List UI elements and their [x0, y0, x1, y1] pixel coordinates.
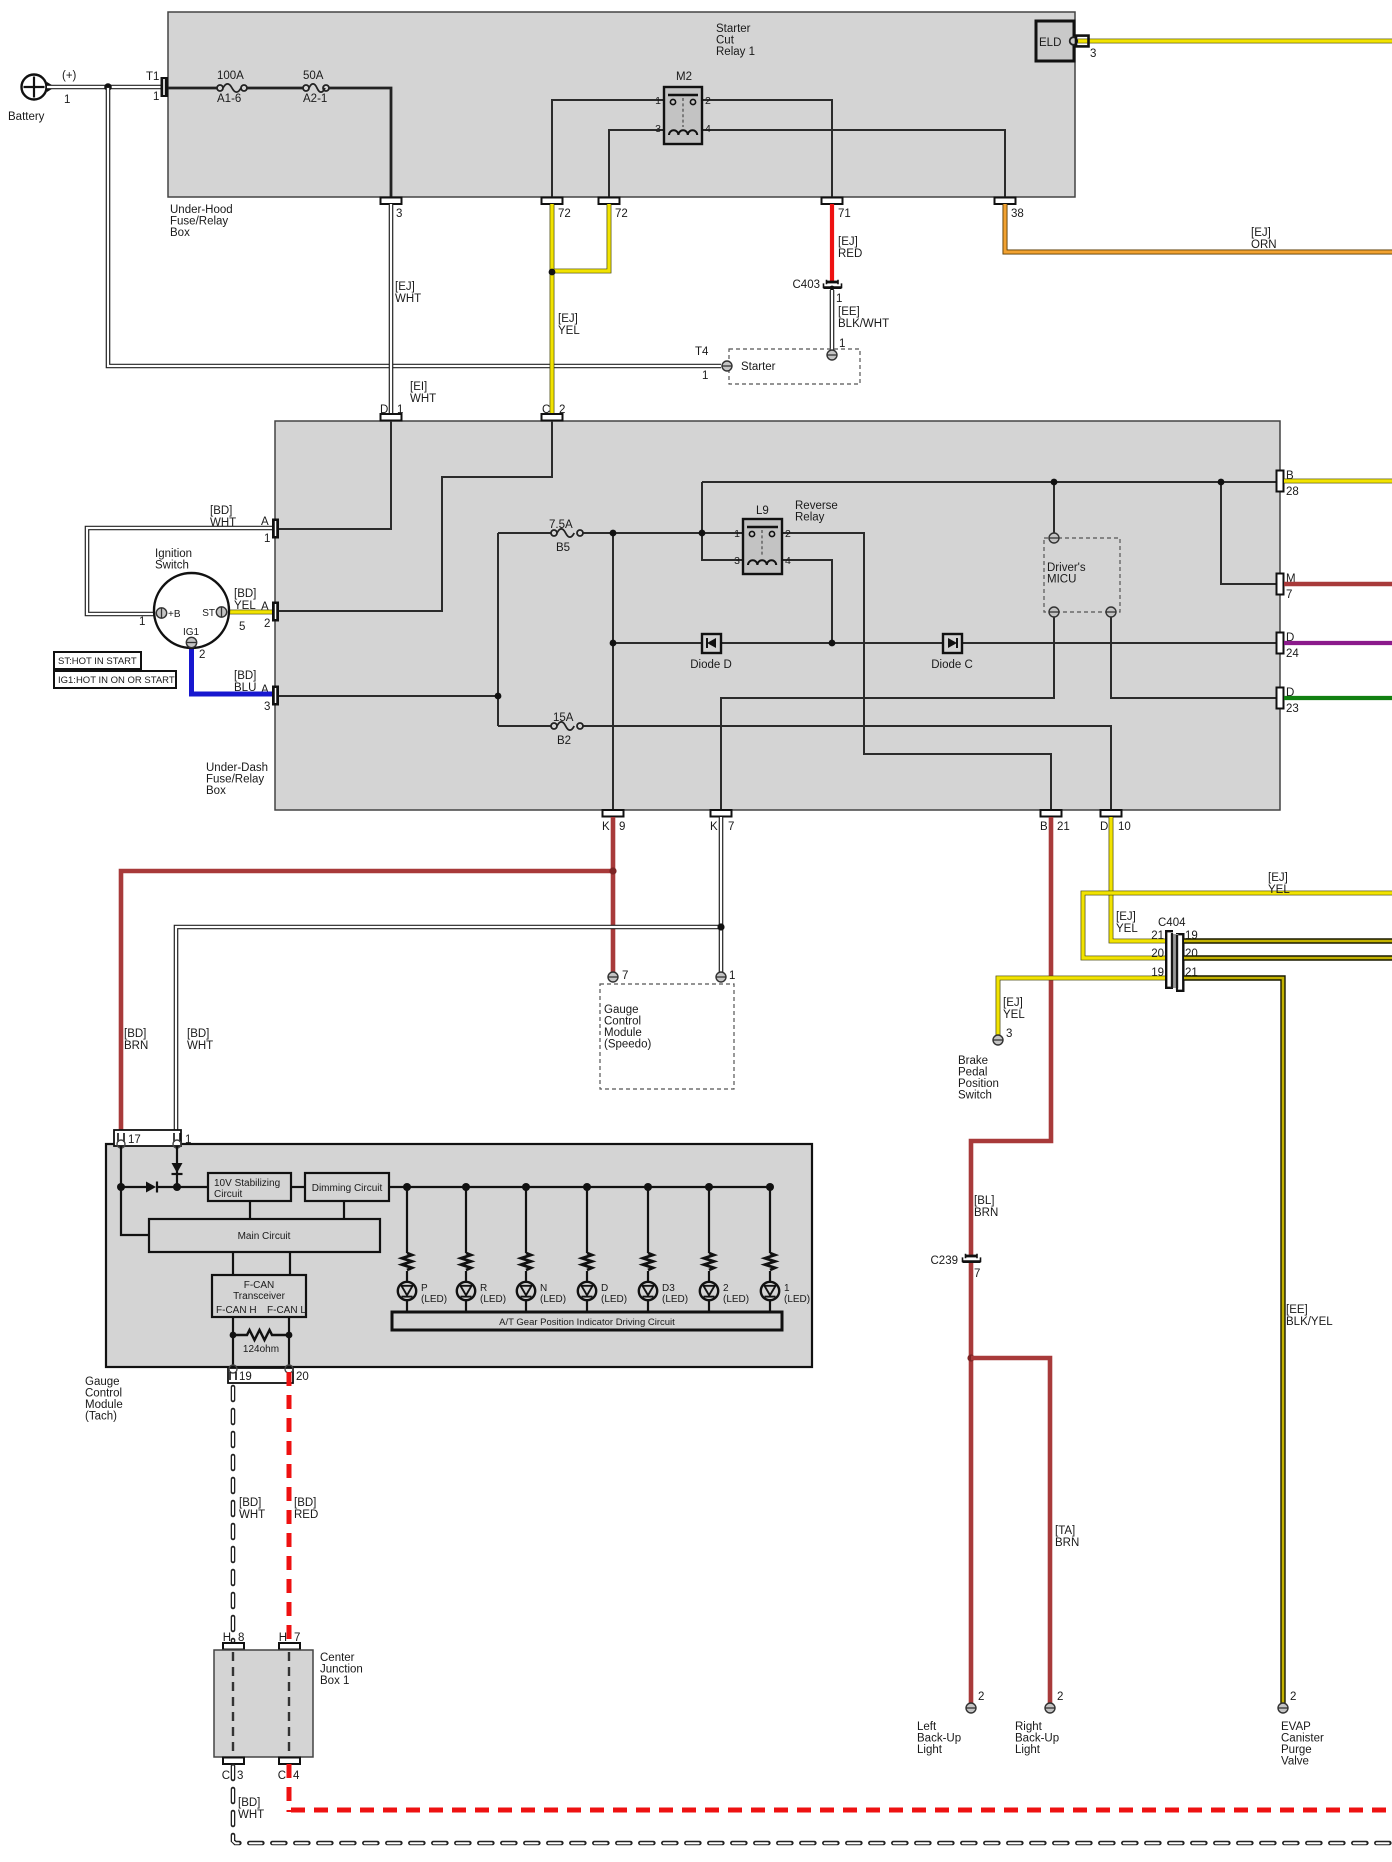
under-hood fuse/relay box — [168, 12, 1075, 239]
svg-text:9: 9 — [619, 821, 625, 833]
svg-text:19: 19 — [239, 1371, 252, 1383]
wire M2 pin2 to terminal 71 — [702, 100, 832, 197]
wire main feed T1 to terminal 3 — [168, 88, 391, 197]
svg-text:[BD]: [BD] — [294, 1497, 316, 1509]
wire CJB internal dash left — [232, 1652, 234, 1756]
svg-text:15A: 15A — [553, 712, 574, 724]
svg-text:D: D — [1100, 821, 1108, 833]
svg-text:Battery: Battery — [8, 111, 45, 123]
svg-text:YEL: YEL — [1003, 1009, 1025, 1021]
svg-text:F-CAN: F-CAN — [244, 1280, 275, 1291]
svg-text:BLU: BLU — [234, 682, 256, 694]
svg-text:1: 1 — [734, 528, 740, 540]
svg-text:WHT: WHT — [395, 293, 421, 305]
f-can transceiver box — [212, 1275, 306, 1317]
wire 10V to main — [249, 1201, 251, 1219]
gauge control module speedo — [600, 970, 735, 1089]
svg-text:C403: C403 — [793, 279, 821, 291]
svg-text:(LED): (LED) — [601, 1294, 627, 1305]
fuse 15A B2 — [551, 712, 583, 747]
wire [EI] WHT battery to starter T4 — [108, 87, 721, 405]
wire tach pin17 internal — [121, 1146, 208, 1187]
dimming circuit box — [305, 1173, 389, 1201]
wire K9 vertical internal — [612, 533, 614, 810]
svg-text:3: 3 — [264, 701, 270, 713]
wire D24 PUR to right edge — [1284, 641, 1392, 645]
wire [EE] BLK/YEL C404 row3 to EVAP valve — [1184, 978, 1333, 1703]
svg-text:WHT: WHT — [210, 517, 236, 529]
svg-text:[BD]: [BD] — [187, 1028, 209, 1040]
wire tach feed to main circuit — [121, 1187, 149, 1235]
svg-text:Module: Module — [604, 1027, 642, 1039]
terminal D24 — [1277, 632, 1300, 660]
svg-text:1: 1 — [64, 94, 70, 106]
terminal D23 — [1277, 687, 1299, 715]
connector C239 — [931, 1254, 981, 1280]
svg-text:+B: +B — [168, 609, 181, 620]
svg-text:Cut: Cut — [716, 35, 735, 47]
svg-text:B2: B2 — [557, 735, 571, 747]
svg-text:3: 3 — [734, 555, 740, 567]
wire M2 pin4 to terminal 38 — [702, 130, 1005, 197]
main circuit box — [149, 1219, 380, 1252]
svg-text:F-CAN H: F-CAN H — [216, 1305, 257, 1316]
LED branch N — [517, 1183, 566, 1312]
wire diode row to D24 — [613, 642, 1277, 644]
wire [BD] WHT dashed pin19 to H8 — [233, 1387, 265, 1641]
diode D — [690, 634, 732, 671]
wire [EJ] ORN terminal 38 to right edge — [1005, 204, 1392, 252]
svg-text:A2-1: A2-1 — [303, 93, 327, 105]
svg-text:[EJ]: [EJ] — [558, 313, 578, 325]
svg-text:RED: RED — [294, 1509, 318, 1521]
svg-text:Circuit: Circuit — [214, 1189, 243, 1200]
svg-text:10V Stabilizing: 10V Stabilizing — [214, 1178, 280, 1189]
svg-text:Starter: Starter — [741, 361, 776, 373]
wire M7 RED to right edge — [1284, 582, 1392, 587]
svg-text:[BD]: [BD] — [234, 670, 256, 682]
svg-text:ST:HOT IN START: ST:HOT IN START — [58, 656, 137, 667]
wire B28 YEL to right edge — [1284, 479, 1392, 484]
svg-text:3: 3 — [1090, 48, 1096, 60]
svg-text:28: 28 — [1286, 486, 1299, 498]
resistor 124ohm — [230, 1330, 293, 1355]
svg-text:1: 1 — [655, 95, 661, 107]
diode C — [931, 634, 973, 671]
terminal 72b — [599, 198, 628, 221]
svg-text:38: 38 — [1011, 208, 1024, 220]
svg-text:(LED): (LED) — [784, 1294, 810, 1305]
svg-text:C: C — [222, 1770, 230, 1782]
wire pin1/pin3 riser — [702, 482, 743, 560]
node K9 branch junction — [609, 867, 616, 874]
svg-text:[EJ]: [EJ] — [838, 236, 858, 248]
svg-text:Control: Control — [604, 1016, 641, 1028]
svg-text:RED: RED — [838, 248, 862, 260]
wire [BD] WHT dashed C3 to bottom edge — [233, 1766, 1392, 1843]
svg-text:[EJ]: [EJ] — [1268, 872, 1288, 884]
svg-text:A1-6: A1-6 — [217, 93, 241, 105]
svg-text:Switch: Switch — [155, 560, 189, 572]
svg-text:(LED): (LED) — [480, 1294, 506, 1305]
svg-text:P: P — [421, 1283, 428, 1294]
node battery junction — [104, 83, 112, 91]
svg-text:Starter: Starter — [716, 23, 751, 35]
wire [BD] RED dashed C4 to right edge — [287, 1764, 292, 1812]
svg-text:Driver's: Driver's — [1047, 562, 1086, 574]
left back-up light — [917, 1691, 984, 1756]
svg-text:IG1:HOT IN ON OR START: IG1:HOT IN ON OR START — [58, 675, 175, 686]
wire BLK/YEL C404 row1 to right edge — [1184, 938, 1392, 943]
svg-text:T4: T4 — [695, 346, 709, 358]
svg-text:IG1: IG1 — [183, 627, 200, 638]
wire 7.5A fuse line — [498, 532, 743, 534]
svg-text:A/T Gear Position Indicator Dr: A/T Gear Position Indicator Driving Circ… — [499, 1317, 675, 1328]
svg-text:K: K — [602, 821, 610, 833]
svg-text:7: 7 — [294, 1632, 300, 1644]
svg-text:BLK/WHT: BLK/WHT — [838, 318, 889, 330]
svg-text:1: 1 — [729, 970, 735, 982]
svg-text:72: 72 — [615, 208, 628, 220]
gauge control module tach box — [85, 1144, 812, 1423]
svg-text:Module: Module — [85, 1399, 123, 1411]
wire [EE] BLK/WHT C403 to starter — [832, 290, 889, 350]
svg-text:5: 5 — [239, 621, 245, 633]
terminal C4 — [278, 1758, 300, 1783]
svg-text:24: 24 — [1286, 648, 1299, 660]
wire [TA] BRN branch to right back-up light — [971, 1358, 1079, 1703]
svg-text:T1: T1 — [146, 71, 159, 83]
svg-text:Right: Right — [1015, 1721, 1043, 1733]
svg-text:21: 21 — [1057, 821, 1070, 833]
svg-text:R: R — [480, 1283, 487, 1294]
wire ELD pin3 YEL to right edge — [1078, 39, 1392, 44]
svg-text:Relay 1: Relay 1 — [716, 46, 755, 58]
svg-text:Control: Control — [85, 1388, 122, 1400]
ignition switch — [139, 548, 245, 661]
svg-text:7: 7 — [622, 970, 628, 982]
svg-text:YEL: YEL — [1116, 923, 1138, 935]
svg-text:4: 4 — [293, 1770, 300, 1782]
diode tach D2 — [172, 1163, 183, 1174]
connector C403 — [793, 279, 843, 305]
svg-text:MICU: MICU — [1047, 574, 1076, 586]
svg-text:Light: Light — [917, 1744, 943, 1756]
wire A3 internal — [279, 695, 498, 697]
right back-up light — [1015, 1691, 1063, 1756]
note box IG1 hot in on or start — [54, 671, 176, 688]
terminal K9 — [602, 810, 625, 833]
wire D1 to A1 internal — [279, 421, 391, 529]
diode tach D1 — [146, 1182, 157, 1193]
svg-text:[EE]: [EE] — [838, 306, 860, 318]
svg-text:[TA]: [TA] — [1055, 1525, 1075, 1537]
svg-text:Diode D: Diode D — [690, 659, 732, 671]
node tach feed junctions — [117, 1183, 181, 1191]
wire [EJ] YEL right edge to C404 row2 — [1083, 872, 1392, 958]
svg-text:(Tach): (Tach) — [85, 1411, 117, 1423]
svg-text:WHT: WHT — [238, 1809, 264, 1821]
wire battery to T1 (WHT) — [47, 85, 161, 90]
svg-text:Ignition: Ignition — [155, 548, 192, 560]
wire [BD] WHT ignition +B loop — [87, 505, 272, 614]
svg-text:BLK/YEL: BLK/YEL — [1286, 1316, 1333, 1328]
wire f-can L to pin20 — [288, 1317, 290, 1367]
svg-text:Back-Up: Back-Up — [917, 1733, 961, 1745]
wire [EJ] YEL terminal 72a to C2 — [552, 204, 580, 414]
wire CJB internal dash right — [288, 1652, 290, 1756]
terminal K7 — [710, 810, 734, 833]
svg-text:(+): (+) — [62, 70, 77, 82]
terminal 72a — [542, 198, 571, 221]
svg-text:Gauge: Gauge — [604, 1004, 639, 1016]
wire f-can H to pin19 — [232, 1317, 234, 1367]
svg-text:N: N — [540, 1283, 547, 1294]
wire [BD] YEL ST to A2 — [226, 588, 272, 612]
node diode row junctions — [610, 640, 836, 647]
wire [BD] BRN K9 to tach pin17 and speedo pin7 — [121, 817, 613, 1139]
svg-text:Switch: Switch — [958, 1090, 992, 1102]
svg-text:20: 20 — [296, 1371, 309, 1383]
svg-text:Valve: Valve — [1281, 1756, 1309, 1768]
node B28 line junctions — [1051, 479, 1225, 486]
note box ST hot in start — [54, 652, 141, 669]
svg-text:1: 1 — [839, 338, 845, 350]
svg-text:WHT: WHT — [187, 1040, 213, 1052]
fuse 50A A2-1 — [303, 70, 329, 105]
svg-text:Main Circuit: Main Circuit — [238, 1231, 291, 1242]
svg-text:F-CAN L: F-CAN L — [267, 1305, 306, 1316]
wire [BD] WHT K7 to tach pin1 and speedo pin1 — [176, 817, 721, 1139]
svg-text:ELD: ELD — [1039, 37, 1061, 49]
svg-text:BRN: BRN — [1055, 1537, 1079, 1549]
svg-text:2: 2 — [978, 1691, 984, 1703]
svg-text:2: 2 — [723, 1283, 729, 1294]
wire C2 to A2 internal — [279, 421, 552, 611]
terminal A1 — [261, 516, 279, 545]
A/T gear position indicator driving circuit box — [392, 1312, 782, 1330]
svg-text:3: 3 — [396, 208, 402, 220]
svg-text:1: 1 — [139, 616, 145, 628]
svg-text:Left: Left — [917, 1721, 937, 1733]
wire L9 pin4 to diode row — [783, 560, 832, 643]
svg-text:Reverse: Reverse — [795, 500, 838, 512]
svg-text:2: 2 — [1290, 1691, 1296, 1703]
terminal A2 — [261, 601, 279, 630]
svg-text:EVAP: EVAP — [1281, 1721, 1311, 1733]
svg-text:Canister: Canister — [1281, 1733, 1324, 1745]
brake pedal position switch — [958, 1035, 1003, 1102]
wire D23 GRN to right edge — [1284, 696, 1392, 700]
svg-text:BRN: BRN — [124, 1040, 148, 1052]
svg-text:7: 7 — [974, 1268, 980, 1280]
svg-text:(LED): (LED) — [723, 1294, 749, 1305]
svg-text:[BL]: [BL] — [974, 1195, 994, 1207]
svg-text:Box: Box — [206, 785, 226, 797]
svg-text:Back-Up: Back-Up — [1015, 1733, 1059, 1745]
tach bottom connector pins 19 20 — [228, 1365, 309, 1383]
wire dimming to main — [343, 1201, 345, 1219]
svg-text:D: D — [380, 404, 388, 416]
wire K7 to MICU internal — [721, 612, 1054, 810]
svg-text:2: 2 — [199, 649, 205, 661]
svg-text:YEL: YEL — [234, 600, 256, 612]
terminal D1 — [380, 404, 403, 421]
svg-text:Position: Position — [958, 1078, 999, 1090]
svg-text:8: 8 — [238, 1632, 244, 1644]
svg-text:H: H — [279, 1632, 287, 1644]
LED branch R — [457, 1183, 506, 1312]
svg-text:YEL: YEL — [1268, 884, 1290, 896]
svg-text:[BD]: [BD] — [239, 1497, 261, 1509]
node back-up branch junction — [967, 1354, 974, 1361]
EVAP canister purge valve — [1278, 1691, 1324, 1768]
relay M2 starter cut relay 1 — [716, 23, 755, 58]
svg-text:1: 1 — [397, 404, 403, 416]
wire [EJ] YEL terminal 72b elbow — [554, 204, 609, 271]
fuse 100A A1-6 — [217, 70, 247, 105]
svg-text:C: C — [278, 1770, 286, 1782]
svg-text:Dimming Circuit: Dimming Circuit — [312, 1183, 383, 1194]
svg-text:2: 2 — [559, 404, 565, 416]
svg-text:71: 71 — [838, 208, 851, 220]
starter unit — [695, 346, 860, 384]
terminal M7 — [1277, 573, 1296, 601]
svg-text:4: 4 — [705, 123, 711, 135]
wire MICU to D23 — [1111, 612, 1277, 698]
svg-text:[BD]: [BD] — [238, 1797, 260, 1809]
svg-text:2: 2 — [264, 618, 270, 630]
LED branch 1 — [761, 1183, 810, 1312]
terminal 38 — [995, 198, 1024, 221]
wire MICU top feed — [1053, 482, 1055, 538]
svg-text:23: 23 — [1286, 703, 1299, 715]
svg-text:[BD]: [BD] — [210, 505, 232, 517]
terminal C3 — [222, 1758, 244, 1783]
terminal B21 — [1040, 810, 1070, 833]
wire [EJ] WHT terminal 3 to D1 — [391, 204, 421, 414]
wire [EJ] RED terminal 71 to C403 — [832, 204, 862, 281]
terminal D10 — [1100, 810, 1131, 833]
svg-text:[EJ]: [EJ] — [1116, 911, 1136, 923]
wire 15A fuse line to D10 — [498, 726, 1111, 810]
svg-text:[EI]: [EI] — [410, 381, 427, 393]
wire tach pin1 internal — [176, 1146, 178, 1187]
svg-text:124ohm: 124ohm — [243, 1344, 279, 1355]
tach top connector pins 17 1 — [114, 1130, 191, 1148]
svg-text:Center: Center — [320, 1652, 355, 1664]
svg-text:19: 19 — [1151, 967, 1164, 979]
svg-text:2: 2 — [705, 95, 711, 107]
wire [EJ] YEL brake pedal switch to C404 row3 — [998, 978, 1165, 1040]
svg-text:Gauge: Gauge — [85, 1376, 120, 1388]
svg-text:Under-Dash: Under-Dash — [206, 762, 268, 774]
svg-text:K: K — [710, 821, 718, 833]
terminal H8 — [223, 1632, 245, 1650]
svg-text:C404: C404 — [1158, 917, 1186, 929]
node K7 branch junction — [717, 923, 724, 930]
battery BAT — [8, 70, 77, 123]
svg-text:Light: Light — [1015, 1744, 1041, 1756]
svg-text:21: 21 — [1151, 930, 1164, 942]
svg-text:72: 72 — [558, 208, 571, 220]
wire M2 pin1 to terminal 72a — [552, 100, 664, 197]
wire M2 pin3 to terminal 72b — [609, 130, 664, 197]
svg-text:L9: L9 — [756, 505, 769, 517]
fuse 7.5A B5 — [549, 519, 583, 554]
svg-text:[EJ]: [EJ] — [395, 281, 415, 293]
svg-text:1: 1 — [784, 1283, 790, 1294]
svg-text:B5: B5 — [556, 542, 570, 554]
svg-text:C: C — [542, 404, 550, 416]
under-dash fuse/relay box — [206, 421, 1280, 810]
terminal 3 under-hood — [381, 198, 403, 221]
wire dimming to LED branches — [389, 1186, 770, 1188]
svg-text:D: D — [601, 1283, 608, 1294]
svg-text:(LED): (LED) — [421, 1294, 447, 1305]
wire fuse riser vertical — [497, 533, 499, 726]
svg-text:D3: D3 — [662, 1283, 675, 1294]
relay M2 body — [655, 71, 711, 144]
svg-text:WHT: WHT — [239, 1509, 265, 1521]
terminal T1 — [146, 71, 168, 103]
ELD unit — [1036, 21, 1096, 61]
node fuse line junctions — [610, 530, 706, 537]
svg-text:2: 2 — [785, 528, 791, 540]
svg-text:1: 1 — [153, 91, 159, 103]
svg-text:H: H — [223, 1632, 231, 1644]
svg-text:1: 1 — [836, 293, 842, 305]
LED branch D — [578, 1183, 627, 1312]
wire [BL] BRN B21 to back-up lights — [971, 817, 1051, 1703]
svg-text:7.5A: 7.5A — [549, 519, 573, 531]
LED branch 2 — [700, 1183, 749, 1312]
svg-text:BRN: BRN — [974, 1207, 998, 1219]
LED branch D3 — [639, 1183, 688, 1312]
wire 10V to dimming — [291, 1186, 305, 1188]
svg-text:Box: Box — [170, 227, 190, 239]
svg-text:(Speedo): (Speedo) — [604, 1039, 651, 1051]
svg-text:[EE]: [EE] — [1286, 1304, 1308, 1316]
svg-text:ORN: ORN — [1251, 239, 1277, 251]
svg-text:[EJ]: [EJ] — [1251, 227, 1271, 239]
wire B28 feed internal — [702, 481, 1277, 483]
svg-text:1: 1 — [702, 370, 708, 382]
svg-text:7: 7 — [728, 821, 734, 833]
svg-text:Transceiver: Transceiver — [233, 1291, 286, 1302]
svg-text:7: 7 — [1286, 589, 1292, 601]
svg-text:ST: ST — [202, 608, 215, 619]
svg-text:Fuse/Relay: Fuse/Relay — [170, 216, 228, 228]
connector C404 — [1151, 917, 1198, 992]
svg-text:YEL: YEL — [558, 325, 580, 337]
svg-text:Relay: Relay — [795, 512, 825, 524]
node A3 junction — [495, 693, 502, 700]
svg-text:10: 10 — [1118, 821, 1131, 833]
svg-text:[BD]: [BD] — [234, 588, 256, 600]
svg-text:[EJ]: [EJ] — [1003, 997, 1023, 1009]
svg-text:[BD]: [BD] — [124, 1028, 146, 1040]
svg-text:Junction: Junction — [320, 1664, 363, 1676]
node yellow junction — [549, 269, 556, 276]
10V stabilizing circuit box — [208, 1173, 291, 1201]
svg-text:50A: 50A — [303, 70, 324, 82]
wire main to f-can left — [232, 1252, 234, 1275]
svg-text:C239: C239 — [931, 1255, 959, 1267]
terminal 71 — [822, 198, 851, 221]
svg-text:Under-Hood: Under-Hood — [170, 204, 233, 216]
wire main to f-can right — [289, 1252, 291, 1275]
